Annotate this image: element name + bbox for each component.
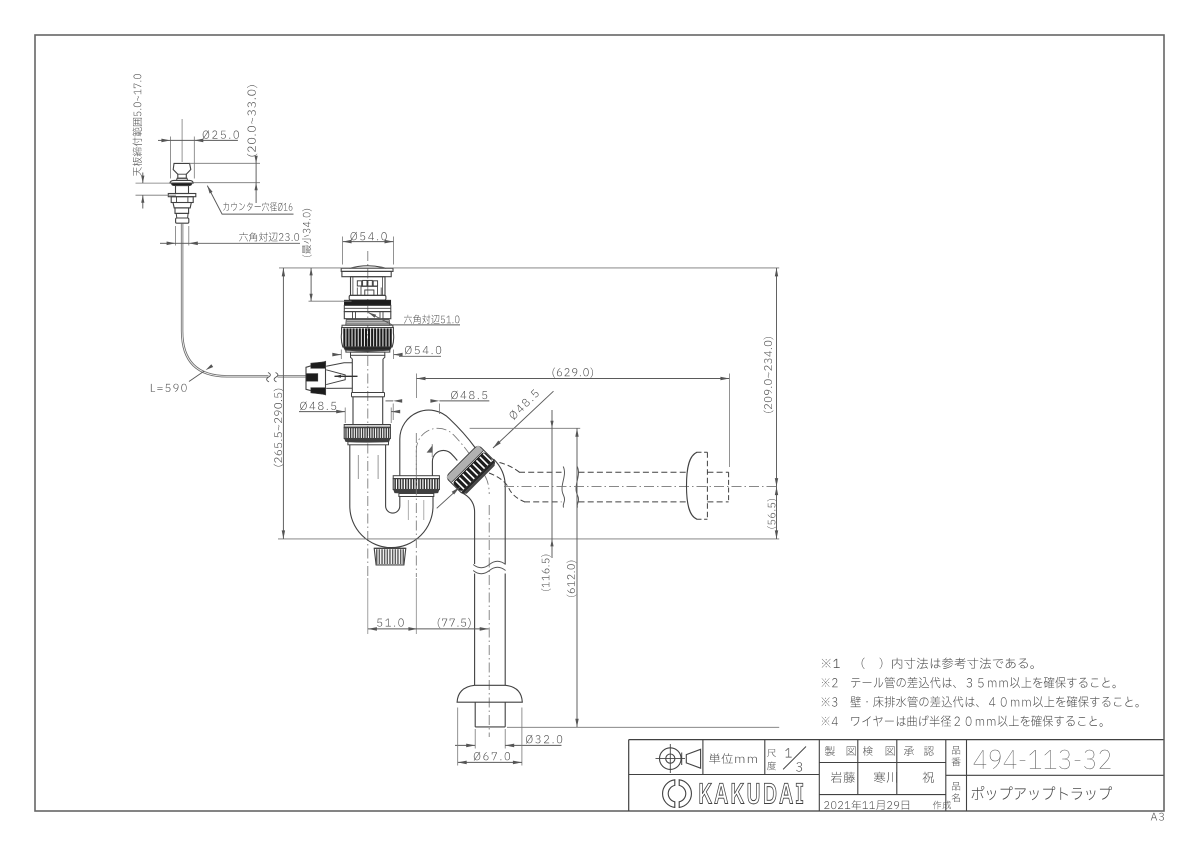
dim (56.5) rotated	[767, 499, 777, 529]
part name ポップアップトラップ	[972, 786, 1113, 800]
floor flange bell	[457, 685, 522, 702]
wire break mark	[267, 373, 271, 382]
KAKUDAI logotype	[700, 783, 803, 804]
label L=590 with leader	[151, 384, 187, 392]
header 製図	[825, 746, 835, 756]
floor flange tail pipe	[474, 702, 476, 727]
drain white band	[344, 305, 391, 311]
dim (265.5~290.5) line	[282, 268, 284, 539]
label 品名	[952, 782, 960, 790]
pipe-bottom extension line	[507, 726, 779, 728]
pull knob collar	[168, 194, 196, 197]
cleanout plug at U bottom	[374, 547, 406, 549]
dim (最小34.0) label rotated	[302, 209, 312, 257]
knurled nut N1 bottom chamfer	[343, 347, 391, 351]
dim Ø48.5 middle	[386, 400, 394, 402]
dim 天板締付範囲5.0~17.0 label (rotated)	[133, 74, 143, 176]
trap bottom tangent extension line (long)	[278, 538, 779, 540]
dim (612.0) rotated	[567, 561, 577, 597]
knurled nut N1 collar	[346, 350, 390, 352]
extension line at counter underside level	[309, 300, 352, 302]
plug mechanism detail	[357, 281, 361, 286]
swan neck centerline	[416, 428, 489, 494]
elbow outer to down pipe	[494, 459, 506, 564]
third-angle projection symbol	[660, 748, 682, 770]
pipe between nut N1 and tee	[351, 359, 353, 393]
leader 六角対辺51.0	[368, 313, 392, 325]
tail below nut N1	[351, 352, 385, 355]
knurled nut N4 (45 degree)	[446, 445, 497, 496]
U-bend inner arc	[386, 487, 400, 513]
pipe below tee	[352, 397, 354, 425]
dim Ø25.0 extension lines	[169, 137, 171, 179]
dim Ø32.0	[474, 729, 476, 749]
U-bend outer arc	[350, 487, 433, 548]
pull knob cone	[173, 163, 191, 178]
knurled nut N1 (large, dark knurl)	[341, 328, 393, 348]
elbow inner to down pipe	[463, 493, 475, 564]
title block horizontal dividers	[629, 774, 820, 776]
hidden elbow dashed arcs	[500, 463, 520, 473]
pull knob centerline	[181, 119, 183, 162]
pull knob hex section	[171, 197, 193, 203]
wall pipe socket dashed	[707, 471, 728, 473]
swan neck inner curve	[432, 450, 457, 475]
dim (20.0~33.0) line	[255, 160, 257, 163]
swan apex extension line	[470, 427, 581, 429]
dim (629.0)	[416, 374, 418, 399]
extension line counter-top	[136, 182, 170, 184]
extension line knob top	[190, 162, 261, 164]
knurled nut N1 top edge	[342, 325, 393, 327]
dim (20.0~33.0) label (rotated)	[247, 85, 257, 156]
label 品番	[952, 746, 960, 754]
pull knob lower section	[175, 208, 189, 214]
tee branch to wire nut	[326, 363, 352, 367]
wall flange hidden edges	[706, 452, 708, 519]
dim Ø54.0 top	[342, 237, 344, 265]
scale cell 尺度 1/3	[767, 749, 776, 757]
dim Ø54.0 nut	[340, 350, 342, 360]
dim (265.5~290.5) label rotated	[274, 389, 284, 467]
note 2	[822, 677, 1116, 688]
pull knob gasket (dark band)	[171, 183, 192, 186]
drain flange dome	[350, 266, 387, 269]
name 寒川	[874, 772, 897, 783]
dim Ø48.5 rotated 45 label+leader	[508, 389, 540, 421]
knurled nut N2 (trap inlet)	[344, 425, 390, 428]
wall flange bell (solid arc)	[687, 452, 698, 519]
drain collar	[349, 295, 386, 300]
extension line counter-bottom left	[136, 194, 177, 196]
outlet limb centerline	[415, 433, 417, 577]
dim (209.0~234.0) rotated	[764, 337, 774, 413]
dim 5.0~17.0 line with outside arrows	[142, 173, 144, 184]
part number 494-113-32	[974, 750, 1111, 769]
hidden tube edges in outlet limb	[407, 500, 409, 520]
dim Ø48.5 left extensions	[344, 408, 346, 424]
dim 51.0	[377, 618, 404, 626]
name 祝	[923, 772, 934, 783]
wire to tee nut	[278, 376, 307, 378]
name 岩藤	[831, 772, 855, 783]
date 2021年11月29日 作成	[824, 800, 909, 810]
washer below hex	[346, 320, 390, 326]
swan neck outer curve	[400, 410, 475, 476]
title block outer box	[629, 739, 1164, 741]
down pipe centerline	[488, 505, 490, 737]
note 3	[822, 696, 1139, 707]
dim (77.5)	[438, 618, 471, 628]
note 4	[822, 715, 1103, 726]
drain flange	[341, 268, 393, 271]
tee collar	[352, 392, 385, 394]
main centerline	[367, 251, 369, 577]
drain black band	[344, 300, 391, 305]
dim Ø67.0	[457, 708, 459, 766]
dim (最小34.0) line	[310, 268, 312, 301]
wire connection nut N5	[306, 362, 326, 395]
dim Ø48.5 left	[299, 411, 345, 413]
pull knob neck flare	[177, 178, 188, 180]
hidden wall pipe dashed top	[519, 471, 562, 473]
long extension line flange-top level	[279, 267, 779, 269]
wire end pin inside tee	[335, 375, 358, 377]
pull knob upper body	[176, 186, 189, 194]
dim 六角対辺23.0	[160, 242, 176, 244]
wall pipe centerline	[504, 486, 779, 488]
title block vertical dividers	[702, 740, 704, 775]
pull knob end nut	[176, 218, 189, 223]
dim 六角対辺23.0 extensions	[175, 226, 177, 246]
unit cell 単位mm	[709, 753, 757, 764]
lift wire from knob (double line, curved)	[181, 223, 268, 377]
hidden wall pipe dashed bottom	[524, 501, 562, 503]
drain upper body with plug mechanism	[351, 277, 386, 296]
KAKUDAI logo mark	[663, 780, 692, 808]
trap inlet tube	[349, 445, 351, 487]
dim (116.5) rotated	[541, 555, 551, 591]
header 検図	[863, 746, 873, 756]
hex nut 六角対辺51.0 body	[344, 312, 391, 319]
sheet size label A3	[1151, 813, 1164, 821]
dim Ø25.0	[158, 139, 170, 141]
down pipe lower part	[474, 574, 476, 686]
down pipe break mark	[473, 561, 505, 568]
dim Ø48.5 middle extensions	[392, 404, 394, 421]
wall pipe break mark	[562, 467, 565, 508]
leader カウンター穴径Ø16	[207, 186, 293, 215]
header 承認	[904, 747, 914, 756]
note 1	[822, 658, 1034, 670]
knurled nut N3 (trap outlet)	[393, 476, 439, 479]
pull knob flange	[170, 180, 193, 183]
